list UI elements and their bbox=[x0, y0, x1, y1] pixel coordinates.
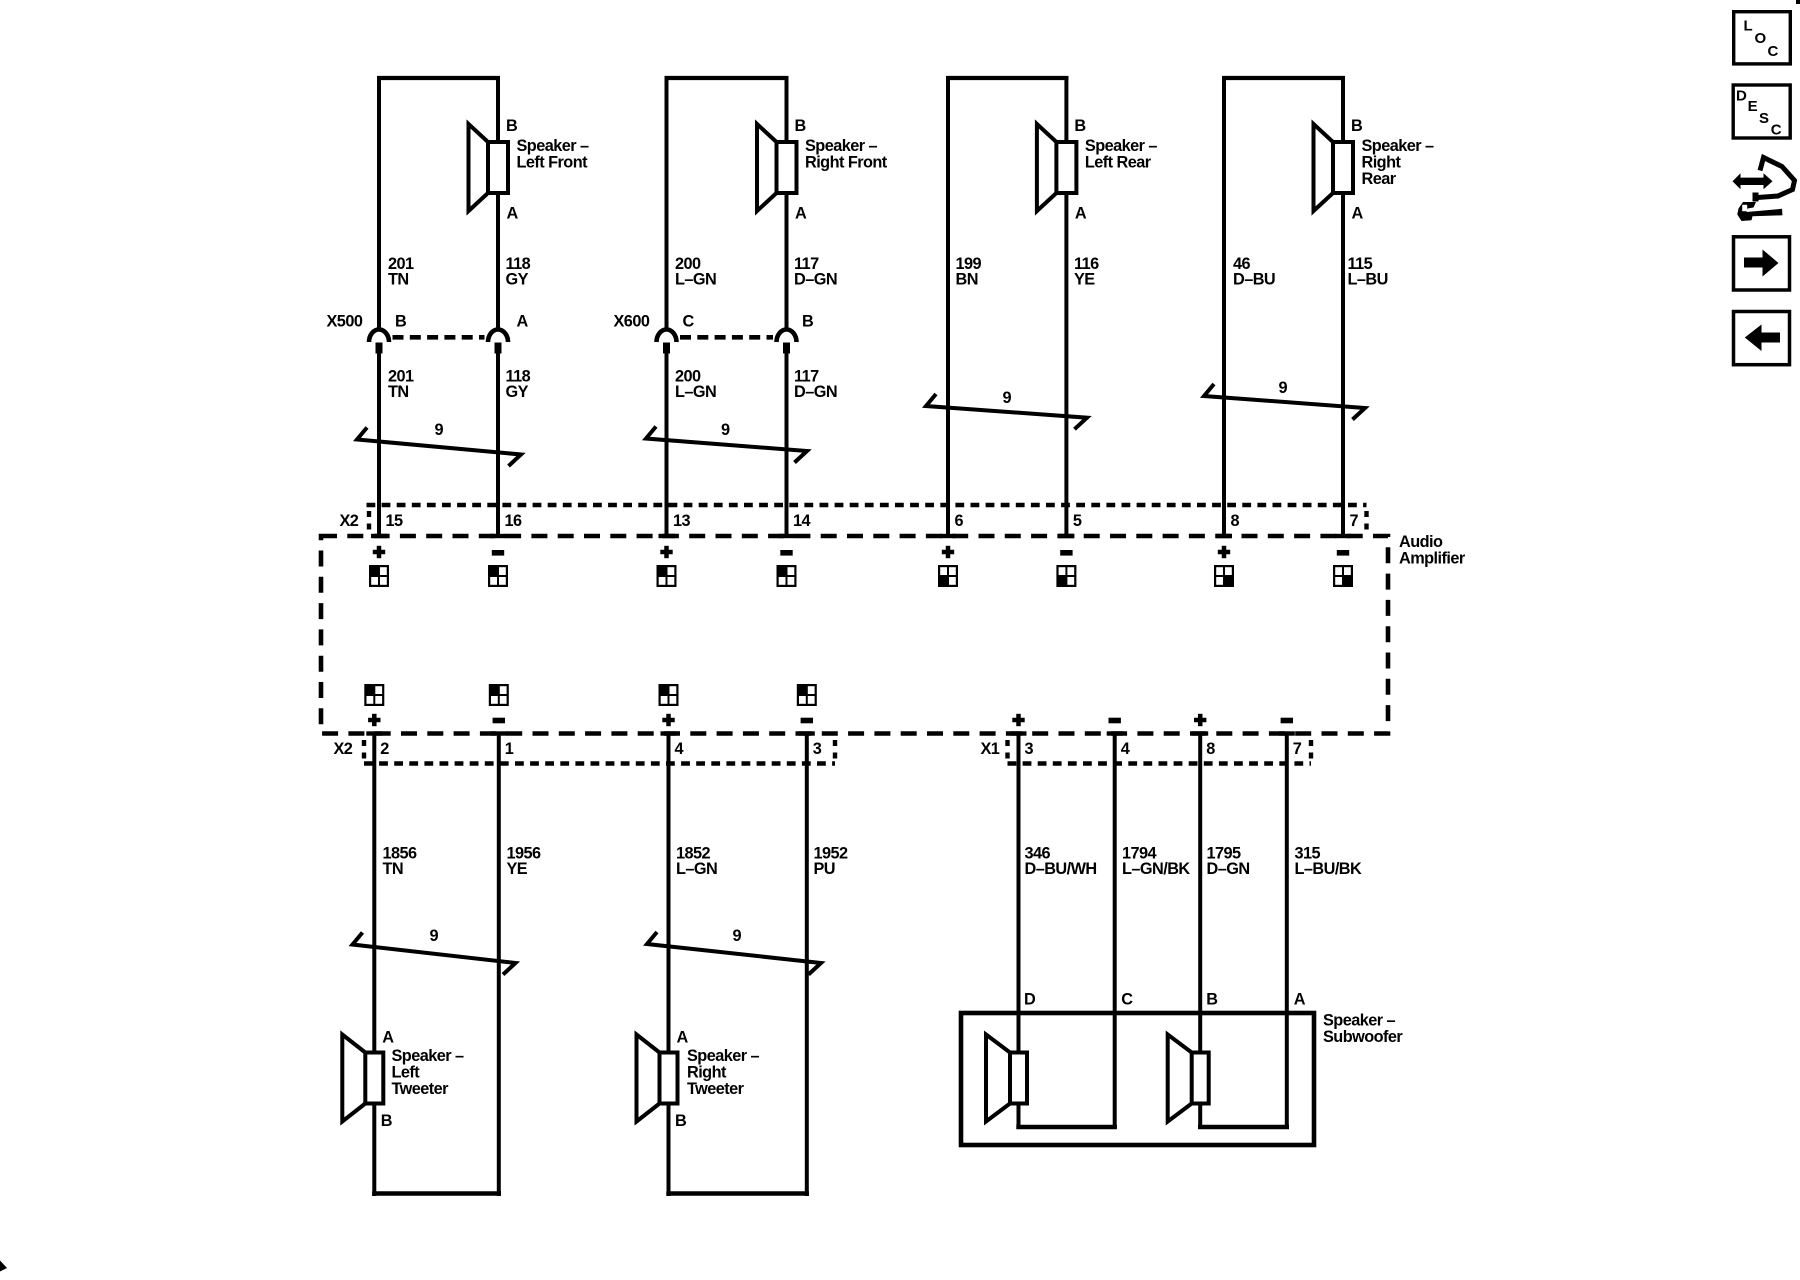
label terminal A speaker Left Rear bbox=[1075, 205, 1087, 223]
label terminal C subwoofer bbox=[1121, 991, 1133, 1009]
svg-text:D–BU/WH: D–BU/WH bbox=[1025, 860, 1097, 878]
connector X2 top dotted outline bbox=[367, 505, 1367, 533]
svg-text:Tweeter: Tweeter bbox=[392, 1080, 450, 1098]
connector X500 terminal B letter bbox=[395, 313, 407, 331]
junction dash at amp pin 16 bbox=[490, 534, 506, 538]
svg-text:9: 9 bbox=[430, 927, 439, 945]
svg-text:L–BU: L–BU bbox=[1348, 271, 1388, 289]
svg-text:5: 5 bbox=[1073, 512, 1082, 530]
junction dash at amp pin 13 bbox=[659, 534, 675, 538]
twisted pair rear right bbox=[1204, 384, 1365, 420]
wire subwoofer D-C join bbox=[1016, 1125, 1117, 1129]
wire 1852 L-GN bbox=[667, 734, 671, 1197]
polarity + pin 13 bbox=[660, 546, 672, 558]
label wire 1852 L-GN bbox=[676, 845, 717, 879]
label pin 16 X2 top bbox=[505, 512, 523, 530]
connector X600 pin C bbox=[657, 329, 677, 353]
label pin 5 X2 top bbox=[1073, 512, 1082, 530]
svg-text:4: 4 bbox=[675, 740, 684, 758]
svg-text:16: 16 bbox=[505, 512, 523, 530]
svg-text:8: 8 bbox=[1206, 740, 1215, 758]
svg-text:B: B bbox=[1074, 117, 1086, 135]
svg-text:L: L bbox=[1744, 18, 1753, 35]
svg-text:A: A bbox=[382, 1029, 394, 1047]
svg-text:Left Rear: Left Rear bbox=[1085, 154, 1152, 172]
label terminal A speaker Left Front bbox=[507, 205, 519, 223]
svg-text:Amplifier: Amplifier bbox=[1399, 550, 1466, 568]
connector X600 terminal B letter bbox=[802, 313, 814, 331]
svg-text:YE: YE bbox=[1074, 271, 1095, 289]
junction dash at amp pin 8 bbox=[1216, 534, 1232, 538]
label pin 15 X2 top bbox=[386, 512, 404, 530]
label wire 1794 L-GN/BK bbox=[1122, 845, 1190, 879]
svg-text:Speaker –: Speaker – bbox=[517, 137, 589, 155]
junction dash at amp X1 pin 7 bbox=[1279, 731, 1295, 735]
label 9 for twisted pair front right bbox=[721, 421, 730, 439]
svg-text:7: 7 bbox=[1293, 740, 1302, 758]
label pin 14 X2 top bbox=[793, 512, 811, 530]
speaker Left Front bbox=[469, 124, 509, 211]
label wire 118 GY lower bbox=[506, 368, 531, 402]
svg-text:L–GN: L–GN bbox=[676, 860, 717, 878]
connector X500 pin B bbox=[369, 329, 389, 353]
wire speaker Left Rear B lead bbox=[1064, 76, 1068, 140]
pin symbol square pin 8 bbox=[1214, 565, 1234, 587]
polarity - X1 pin 7 bbox=[1281, 718, 1293, 724]
speaker Left Tweeter bbox=[342, 1035, 383, 1122]
svg-text:L–GN/BK: L–GN/BK bbox=[1122, 860, 1190, 878]
label terminal B speaker Right Tweeter bbox=[675, 1112, 687, 1130]
svg-text:14: 14 bbox=[793, 512, 811, 530]
label wire 1956 YE bbox=[507, 845, 542, 879]
label 9 for twisted pair rear left bbox=[1003, 389, 1012, 407]
label wire 201 TN upper bbox=[388, 255, 414, 289]
svg-text:9: 9 bbox=[721, 421, 730, 439]
label terminal A subwoofer bbox=[1294, 991, 1306, 1009]
wire speaker Left Front A lead bbox=[496, 195, 500, 329]
polarity + pin 6 bbox=[942, 546, 954, 558]
svg-text:X2: X2 bbox=[340, 512, 359, 530]
icon wiring repair (arrows and wrench) bbox=[1733, 158, 1795, 222]
svg-text:Speaker –: Speaker – bbox=[805, 137, 877, 155]
svg-text:8: 8 bbox=[1231, 512, 1240, 530]
label pin 7 X2 top bbox=[1350, 512, 1359, 530]
label pin 4 X2 bottom bbox=[675, 740, 684, 758]
connector X500 terminal A letter bbox=[517, 313, 529, 331]
svg-text:6: 6 bbox=[955, 512, 964, 530]
label wire 46 D-BU upper bbox=[1233, 255, 1275, 289]
pin symbol square pin 7 bbox=[1333, 565, 1353, 587]
polarity - X2 pin 3 bbox=[801, 718, 813, 724]
svg-text:X1: X1 bbox=[981, 740, 1000, 758]
svg-text:E: E bbox=[1748, 98, 1758, 115]
junction dash at amp X1 pin 8 bbox=[1192, 731, 1208, 735]
wire speaker Left Front positive lead bbox=[377, 76, 381, 329]
svg-text:B: B bbox=[675, 1112, 687, 1130]
svg-text:3: 3 bbox=[1025, 740, 1034, 758]
svg-text:Right: Right bbox=[687, 1064, 727, 1082]
label speaker Right Front name bbox=[805, 137, 888, 172]
svg-text:X2: X2 bbox=[334, 740, 353, 758]
speaker Subwoofer box bbox=[961, 1013, 1314, 1145]
wire 1956 YE bbox=[497, 734, 501, 1197]
svg-text:Rear: Rear bbox=[1362, 170, 1397, 188]
icon back arrow box bbox=[1734, 312, 1790, 365]
connector X600 terminal C letter bbox=[683, 313, 695, 331]
subwoofer driver 2 bbox=[1168, 1035, 1209, 1122]
polarity - X1 pin 4 bbox=[1109, 718, 1121, 724]
wire speaker Right Front positive lead bbox=[665, 76, 669, 329]
label terminal A speaker Right Front bbox=[795, 205, 807, 223]
polarity + pin 8 bbox=[1218, 546, 1230, 558]
junction dash at amp pin 14 bbox=[779, 534, 795, 538]
svg-text:9: 9 bbox=[733, 927, 742, 945]
svg-text:C: C bbox=[1768, 43, 1779, 60]
svg-text:BN: BN bbox=[956, 271, 978, 289]
svg-text:YE: YE bbox=[507, 860, 528, 878]
svg-text:C: C bbox=[683, 313, 695, 331]
label wire 1856 TN bbox=[383, 845, 418, 879]
svg-text:S: S bbox=[1759, 110, 1769, 127]
svg-text:Left: Left bbox=[392, 1064, 421, 1082]
label pin 8 X1 bbox=[1206, 740, 1215, 758]
svg-text:L–GN: L–GN bbox=[675, 383, 716, 401]
wire speaker Left Rear A lead bbox=[1064, 195, 1068, 536]
label wire 1952 PU bbox=[814, 845, 849, 879]
wire 1856 TN bbox=[372, 734, 376, 1197]
label connector X2 top bbox=[340, 512, 359, 530]
label pin 2 X2 bottom bbox=[380, 740, 389, 758]
label wire 200 L-GN lower bbox=[675, 368, 716, 402]
svg-text:Speaker –: Speaker – bbox=[392, 1047, 464, 1065]
wire 1794 L-GN/BK bbox=[1113, 734, 1117, 1128]
label 9 for twisted pair right tweeter bbox=[733, 927, 742, 945]
svg-text:A: A bbox=[507, 205, 519, 223]
pin symbol square X2 pin 4 bbox=[659, 684, 679, 706]
polarity + pin 15 bbox=[373, 546, 385, 558]
svg-text:1: 1 bbox=[505, 740, 514, 758]
svg-text:B: B bbox=[1351, 117, 1363, 135]
label speaker Right Rear name bbox=[1362, 137, 1434, 188]
svg-text:B: B bbox=[802, 313, 814, 331]
svg-text:D–BU: D–BU bbox=[1233, 271, 1275, 289]
svg-text:B: B bbox=[1206, 991, 1218, 1009]
svg-text:TN: TN bbox=[388, 383, 409, 401]
polarity - pin 5 bbox=[1060, 550, 1072, 556]
label wire 199 BN upper bbox=[956, 255, 982, 289]
junction dash at amp pin 15 bbox=[371, 534, 387, 538]
svg-text:Right Front: Right Front bbox=[805, 154, 888, 172]
pin symbol square X2 pin 2 bbox=[364, 684, 384, 706]
polarity - pin 14 bbox=[780, 550, 792, 556]
icon DESC box bbox=[1733, 85, 1790, 138]
pin symbol square X2 pin 1 bbox=[489, 684, 509, 706]
label pin 1 X2 bottom bbox=[505, 740, 514, 758]
svg-text:A: A bbox=[1294, 991, 1306, 1009]
label 9 for twisted pair rear right bbox=[1279, 379, 1288, 397]
label terminal B speaker Left Tweeter bbox=[381, 1112, 393, 1130]
svg-text:TN: TN bbox=[388, 271, 409, 289]
svg-text:Right: Right bbox=[1362, 154, 1402, 172]
svg-text:4: 4 bbox=[1121, 740, 1130, 758]
label terminal A speaker Left Tweeter bbox=[382, 1029, 394, 1047]
label pin 8 X2 top bbox=[1231, 512, 1240, 530]
svg-text:D–GN: D–GN bbox=[794, 271, 837, 289]
label terminal B subwoofer bbox=[1206, 991, 1218, 1009]
wire speaker Right Front loop top bbox=[665, 76, 789, 80]
connector X600 pin B bbox=[777, 329, 797, 353]
label Audio Amplifier bbox=[1399, 533, 1466, 568]
svg-text:A: A bbox=[795, 205, 807, 223]
svg-text:13: 13 bbox=[673, 512, 691, 530]
svg-text:15: 15 bbox=[386, 512, 404, 530]
speaker Right Rear bbox=[1314, 124, 1354, 211]
label connector X1 bbox=[981, 740, 1000, 758]
junction dash at amp X1 pin 3 bbox=[1011, 731, 1027, 735]
svg-text:Speaker –: Speaker – bbox=[687, 1047, 759, 1065]
svg-text:7: 7 bbox=[1350, 512, 1359, 530]
twisted pair front right bbox=[646, 427, 807, 463]
twisted pair left tweeter bbox=[353, 933, 516, 975]
label wire 118 GY upper bbox=[506, 255, 531, 289]
label terminal A speaker Right Rear bbox=[1352, 205, 1364, 223]
label speaker Left Tweeter name bbox=[392, 1047, 464, 1098]
twisted pair rear left bbox=[926, 394, 1087, 429]
junction dash at amp pin 7 bbox=[1335, 534, 1351, 538]
svg-text:Speaker –: Speaker – bbox=[1085, 137, 1157, 155]
svg-text:C: C bbox=[1121, 991, 1133, 1009]
wire speaker Left Rear loop top bbox=[946, 76, 1068, 80]
svg-text:C: C bbox=[1771, 121, 1782, 138]
speaker Right Tweeter bbox=[637, 1035, 678, 1122]
pin symbol square X2 pin 3 bbox=[797, 684, 817, 706]
label wire 200 L-GN upper bbox=[675, 255, 716, 289]
svg-text:D–GN: D–GN bbox=[794, 383, 837, 401]
pin symbol square pin 16 bbox=[488, 565, 508, 587]
svg-text:L–BU/BK: L–BU/BK bbox=[1295, 860, 1362, 878]
wire 315 L-BU/BK bbox=[1285, 734, 1289, 1128]
connector X1 dotted outline bbox=[1008, 740, 1312, 764]
svg-text:9: 9 bbox=[1003, 389, 1012, 407]
svg-text:X600: X600 bbox=[614, 313, 650, 331]
twisted pair front left bbox=[357, 428, 521, 467]
wire speaker Right Front B lead bbox=[785, 76, 789, 140]
wire 346 D-BU/WH bbox=[1017, 734, 1021, 1128]
svg-text:O: O bbox=[1755, 30, 1767, 47]
junction dash at amp X2 pin 2 bbox=[366, 731, 382, 735]
svg-text:Speaker –: Speaker – bbox=[1362, 137, 1434, 155]
label pin 7 X1 bbox=[1293, 740, 1302, 758]
polarity - pin 7 bbox=[1337, 550, 1349, 556]
label wire 346 D-BU/WH bbox=[1025, 845, 1097, 879]
audio amplifier box dashed bbox=[321, 536, 1388, 734]
label wire 117 D-GN upper bbox=[794, 255, 837, 289]
wire 118 GY below X500 bbox=[496, 353, 500, 536]
speaker Left Rear bbox=[1037, 124, 1077, 211]
svg-text:PU: PU bbox=[814, 860, 836, 878]
label speaker Left Front name bbox=[517, 137, 589, 172]
junction dash at amp X2 pin 4 bbox=[661, 731, 677, 735]
label speaker Right Tweeter name bbox=[687, 1047, 759, 1098]
wire speaker Left Tweeter loop bottom bbox=[372, 1191, 501, 1195]
wire 1952 PU bbox=[805, 734, 809, 1197]
svg-text:9: 9 bbox=[1279, 379, 1288, 397]
connector X2 bottom dotted outline bbox=[364, 740, 835, 764]
svg-text:L–GN: L–GN bbox=[675, 271, 716, 289]
label pin 6 X2 top bbox=[955, 512, 964, 530]
wire speaker Left Front loop top bbox=[377, 76, 500, 80]
icon LOC box bbox=[1734, 12, 1791, 64]
connector X500 label bbox=[327, 313, 363, 331]
wire speaker Right Rear A lead bbox=[1341, 195, 1345, 536]
svg-text:A: A bbox=[1075, 205, 1087, 223]
label terminal B speaker Right Front bbox=[795, 117, 807, 135]
svg-text:A: A bbox=[677, 1029, 689, 1047]
label wire 116 YE upper bbox=[1074, 255, 1099, 289]
icon forward arrow box bbox=[1734, 237, 1790, 290]
label wire 117 D-GN lower bbox=[794, 368, 837, 402]
label connector X2 bottom bbox=[334, 740, 353, 758]
label pin 4 X1 bbox=[1121, 740, 1130, 758]
pin symbol square pin 6 bbox=[938, 565, 958, 587]
svg-text:3: 3 bbox=[813, 740, 822, 758]
polarity + X2 pin 4 bbox=[662, 714, 674, 726]
junction dash at amp pin 6 bbox=[940, 534, 956, 538]
wire speaker Left Front B lead bbox=[496, 76, 500, 140]
pin symbol square pin 5 bbox=[1056, 565, 1076, 587]
wire 200 L-GN below X600 bbox=[665, 353, 669, 536]
junction dash at amp pin 5 bbox=[1058, 534, 1074, 538]
svg-text:TN: TN bbox=[383, 860, 404, 878]
connector X600 label bbox=[614, 313, 650, 331]
wire speaker Right Rear B lead bbox=[1341, 76, 1345, 140]
connector X600 body dashed bbox=[680, 335, 773, 340]
svg-text:2: 2 bbox=[380, 740, 389, 758]
svg-text:D: D bbox=[1024, 991, 1036, 1009]
svg-text:A: A bbox=[517, 313, 529, 331]
polarity + X2 pin 2 bbox=[368, 714, 380, 726]
wire speaker Right Front A lead bbox=[785, 195, 789, 329]
wire subwoofer B-A join bbox=[1198, 1125, 1289, 1129]
wire speaker Right Rear loop top bbox=[1222, 76, 1345, 80]
svg-text:Audio: Audio bbox=[1399, 533, 1443, 551]
svg-text:B: B bbox=[506, 117, 518, 135]
speaker Right Front bbox=[757, 124, 797, 211]
svg-text:Speaker –: Speaker – bbox=[1323, 1012, 1395, 1030]
svg-text:B: B bbox=[395, 313, 407, 331]
junction dash at amp X1 pin 4 bbox=[1107, 731, 1123, 735]
label terminal B speaker Right Rear bbox=[1351, 117, 1363, 135]
junction dash at amp X2 pin 3 bbox=[799, 731, 815, 735]
wire speaker Right Tweeter loop bottom bbox=[666, 1191, 809, 1195]
polarity + X1 pin 8 bbox=[1194, 714, 1206, 726]
page corner mark bottom left bbox=[0, 1261, 7, 1272]
svg-text:B: B bbox=[381, 1112, 393, 1130]
label pin 13 X2 top bbox=[673, 512, 691, 530]
wire speaker Left Rear positive lead bbox=[946, 76, 950, 536]
polarity - pin 16 bbox=[492, 550, 504, 556]
label wire 315 L-BU/BK bbox=[1295, 845, 1362, 879]
subwoofer driver 1 bbox=[986, 1035, 1027, 1122]
label terminal B speaker Left Front bbox=[506, 117, 518, 135]
label 9 for twisted pair left tweeter bbox=[430, 927, 439, 945]
label pin 3 X1 bbox=[1025, 740, 1034, 758]
svg-text:Subwoofer: Subwoofer bbox=[1323, 1028, 1403, 1046]
label terminal B speaker Left Rear bbox=[1074, 117, 1086, 135]
wire 117 D-GN below X600 bbox=[785, 353, 789, 536]
label terminal A speaker Right Tweeter bbox=[677, 1029, 689, 1047]
svg-text:B: B bbox=[795, 117, 807, 135]
svg-text:GY: GY bbox=[506, 271, 529, 289]
page corner mark top right bbox=[1796, 0, 1800, 4]
label wire 115 L-BU upper bbox=[1348, 255, 1388, 289]
label speaker Subwoofer name bbox=[1323, 1012, 1403, 1047]
pin symbol square pin 13 bbox=[657, 565, 677, 587]
pin symbol square pin 15 bbox=[369, 565, 389, 587]
wire 1795 D-GN bbox=[1198, 734, 1202, 1128]
svg-text:D: D bbox=[1736, 88, 1747, 105]
label wire 1795 D-GN bbox=[1207, 845, 1250, 879]
label wire 201 TN lower bbox=[388, 368, 414, 402]
junction dash at amp X2 pin 1 bbox=[491, 731, 507, 735]
wire speaker Right Rear positive lead bbox=[1222, 76, 1226, 536]
pin symbol square pin 14 bbox=[777, 565, 797, 587]
twisted pair right tweeter bbox=[647, 932, 821, 975]
svg-text:D–GN: D–GN bbox=[1207, 860, 1250, 878]
label speaker Left Rear name bbox=[1085, 137, 1157, 172]
label 9 for twisted pair front left bbox=[435, 421, 444, 439]
svg-text:GY: GY bbox=[506, 383, 529, 401]
connector X500 body dashed bbox=[393, 335, 485, 340]
svg-text:A: A bbox=[1352, 205, 1364, 223]
svg-text:X500: X500 bbox=[327, 313, 363, 331]
label terminal D subwoofer bbox=[1024, 991, 1036, 1009]
svg-text:9: 9 bbox=[435, 421, 444, 439]
connector X500 pin A bbox=[488, 329, 508, 353]
polarity + X1 pin 3 bbox=[1012, 714, 1024, 726]
svg-text:Left Front: Left Front bbox=[517, 154, 589, 172]
polarity - X2 pin 1 bbox=[493, 718, 505, 724]
label pin 3 X2 bottom bbox=[813, 740, 822, 758]
svg-text:Tweeter: Tweeter bbox=[687, 1080, 745, 1098]
wire 201 TN below X500 bbox=[377, 353, 381, 536]
